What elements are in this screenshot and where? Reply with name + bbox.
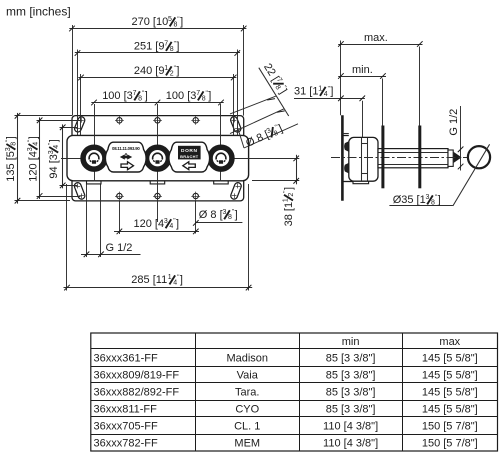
svg-text:100 [3: 100 [3	[166, 90, 197, 102]
svg-text:]: ]	[176, 218, 179, 230]
svg-text:max.: max.	[364, 32, 388, 44]
svg-text:120 [4: 120 [4	[27, 151, 39, 182]
dornbracht logo block	[178, 146, 201, 160]
svg-text:]: ]	[176, 65, 179, 77]
svg-text:240 [9: 240 [9	[134, 65, 165, 77]
svg-text:150 [5 7/8"]: 150 [5 7/8"]	[422, 421, 478, 433]
svg-text:Ø 8 [: Ø 8 [	[199, 209, 223, 221]
valve port left	[81, 145, 107, 171]
max wall line marker	[418, 126, 421, 189]
svg-text:BRACHT: BRACHT	[180, 154, 199, 159]
front view mounting plate	[72, 116, 244, 201]
vertical centerline center port	[157, 104, 159, 222]
dimension 38 mm centerline to bottom	[250, 158, 299, 160]
front view slot hole bottom-left	[73, 182, 85, 200]
svg-text:120 [4: 120 [4	[134, 218, 165, 230]
dimension 135 mm height	[15, 115, 73, 117]
vertical centerline right port	[220, 104, 222, 182]
dimension 120 mm bottom screw holes	[119, 202, 121, 235]
svg-text:285 [11: 285 [11	[131, 274, 167, 286]
svg-text:100 [3: 100 [3	[102, 90, 133, 102]
svg-text:min.: min.	[352, 64, 373, 76]
svg-text:145 [5 5/8"]: 145 [5 5/8"]	[422, 404, 478, 416]
svg-text:36xxx361-FF: 36xxx361-FF	[94, 353, 158, 365]
horizontal centerline through ports	[61, 158, 299, 160]
svg-text:]: ]	[208, 90, 211, 102]
dimension 285 mm overall body width	[66, 184, 68, 291]
valve port center	[144, 145, 170, 171]
svg-text:CYO: CYO	[235, 404, 259, 416]
diameter 8 mm slot label upper	[244, 124, 298, 148]
svg-text:85 [3 3/8"]: 85 [3 3/8"]	[326, 353, 376, 365]
svg-text:Madison: Madison	[226, 353, 268, 365]
svg-text:Vaia: Vaia	[237, 370, 259, 382]
svg-text:]: ]	[27, 136, 39, 139]
svg-text:]: ]	[5, 136, 17, 139]
svg-text:08.11.11.093.90: 08.11.11.093.90	[112, 146, 140, 151]
svg-text:max: max	[439, 336, 460, 348]
svg-text:85 [3 3/8"]: 85 [3 3/8"]	[326, 370, 376, 382]
svg-text:110 [4 3/8"]: 110 [4 3/8"]	[323, 421, 378, 433]
side view body inner lines	[361, 138, 363, 181]
svg-text:251 [9: 251 [9	[134, 41, 165, 53]
flow direction arrow left	[183, 162, 196, 170]
bottom connection boss center	[150, 181, 165, 184]
dimension 94 mm slot spacing	[60, 127, 79, 129]
bottom connection boss left	[87, 181, 102, 184]
front view slot hole bottom-right	[230, 182, 242, 200]
dimension 240 mm	[80, 74, 82, 135]
dimension 22 mm slot diagonal	[230, 96, 276, 114]
side view centerline	[331, 157, 468, 159]
vertical centerline left port	[94, 104, 96, 182]
side view wall extension line	[340, 41, 342, 116]
side view stem cap	[448, 150, 453, 166]
svg-text:]: ]	[330, 86, 333, 98]
dimension 100 mm port spacing left and right	[91, 102, 223, 104]
svg-text:145 [5 5/8"]: 145 [5 5/8"]	[422, 370, 478, 382]
side view hose connection boss lower	[345, 163, 349, 173]
side view body block	[349, 137, 378, 181]
double arrow icon	[120, 153, 132, 159]
side view plate arm bottom	[342, 181, 353, 183]
side view mounting plate edge	[341, 115, 344, 201]
side view stem tip	[454, 152, 462, 163]
svg-text:150 [5 7/8"]: 150 [5 7/8"]	[422, 438, 478, 450]
svg-text:]: ]	[283, 187, 295, 190]
side view body bottom tab	[353, 181, 369, 184]
svg-text:]: ]	[180, 16, 183, 28]
svg-text:36xxx705-FF: 36xxx705-FF	[94, 421, 158, 433]
svg-text:MEM: MEM	[234, 438, 260, 450]
bottom connection boss right	[214, 181, 229, 184]
svg-text:31 [1: 31 [1	[294, 86, 318, 98]
svg-text:38 [1: 38 [1	[283, 202, 295, 226]
svg-text:110 [4 3/8"]: 110 [4 3/8"]	[323, 438, 378, 450]
label plate left with article number	[105, 142, 146, 172]
dimension 31 mm	[362, 101, 364, 138]
svg-text:]: ]	[48, 139, 60, 142]
knob sphere	[468, 146, 490, 168]
svg-text:145 [5 5/8"]: 145 [5 5/8"]	[422, 353, 478, 365]
label plate right with logo	[169, 142, 210, 172]
diameter 35 mm label	[389, 205, 453, 207]
side view hose connection boss upper	[345, 142, 349, 152]
flow direction arrow right	[121, 162, 134, 170]
svg-text:]: ]	[438, 194, 441, 206]
dimension 120 mm screw hole spacing vertical	[37, 120, 81, 122]
svg-text:145 [5 5/8"]: 145 [5 5/8"]	[422, 387, 478, 399]
svg-text:Tara.: Tara.	[235, 387, 259, 399]
svg-text:94 [3: 94 [3	[48, 154, 60, 178]
svg-text:]: ]	[235, 209, 238, 221]
dimension 270 mm overall	[72, 25, 74, 116]
svg-text:36xxx811-FF: 36xxx811-FF	[94, 404, 158, 416]
svg-text:G 1/2: G 1/2	[106, 242, 133, 254]
diameter 8 mm screw hole label bottom	[196, 222, 243, 224]
dimension max wall depth	[419, 47, 421, 126]
dimension min wall depth	[382, 79, 384, 126]
side view plate arm top	[342, 135, 348, 137]
front view slot hole top-right	[230, 116, 242, 133]
front view valve body housing	[67, 135, 249, 180]
side view stem tube	[378, 149, 448, 168]
svg-text:36xxx809/819-FF: 36xxx809/819-FF	[94, 370, 180, 382]
dimension 251 mm	[77, 50, 79, 136]
front view slot hole top-left	[74, 116, 86, 133]
screw holes with center marks	[117, 118, 122, 123]
thread note G 1/2 outlet	[460, 106, 462, 171]
thread note G 1/2 bottom ports	[86, 185, 88, 258]
svg-text:270 [10: 270 [10	[132, 16, 169, 28]
svg-text:85 [3 3/8"]: 85 [3 3/8"]	[326, 404, 376, 416]
svg-text:]: ]	[176, 41, 179, 53]
min wall line marker	[381, 126, 384, 189]
svg-text:85 [3 3/8"]: 85 [3 3/8"]	[326, 387, 376, 399]
model table frame	[91, 333, 498, 451]
svg-text:Ø35 [1: Ø35 [1	[393, 194, 426, 206]
svg-text:135 [5: 135 [5	[5, 151, 17, 182]
svg-text:mm [inches]: mm [inches]	[6, 5, 71, 19]
svg-text:G 1/2: G 1/2	[448, 109, 460, 136]
svg-text:min: min	[342, 336, 360, 348]
svg-text:36xxx882/892-FF: 36xxx882/892-FF	[94, 387, 180, 399]
svg-text:CL. 1: CL. 1	[234, 421, 260, 433]
svg-text:]: ]	[180, 274, 183, 286]
valve port right	[208, 145, 234, 171]
svg-text:]: ]	[145, 90, 148, 102]
svg-text:36xxx782-FF: 36xxx782-FF	[94, 438, 158, 450]
